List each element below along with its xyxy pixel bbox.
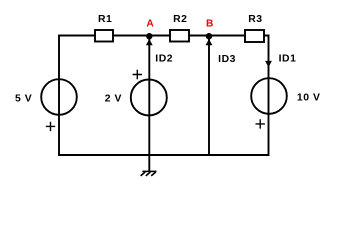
svg-text:ID2: ID2: [155, 54, 173, 65]
svg-text:R3: R3: [248, 14, 262, 25]
svg-text:R1: R1: [98, 14, 112, 25]
svg-text:A: A: [146, 19, 154, 30]
svg-text:5 V: 5 V: [15, 94, 32, 105]
svg-text:2 V: 2 V: [105, 93, 122, 104]
svg-text:ID3: ID3: [218, 54, 236, 65]
svg-text:R2: R2: [173, 14, 187, 25]
svg-text:B: B: [206, 19, 213, 30]
svg-text:ID1: ID1: [279, 54, 297, 65]
svg-text:10 V: 10 V: [297, 93, 321, 104]
